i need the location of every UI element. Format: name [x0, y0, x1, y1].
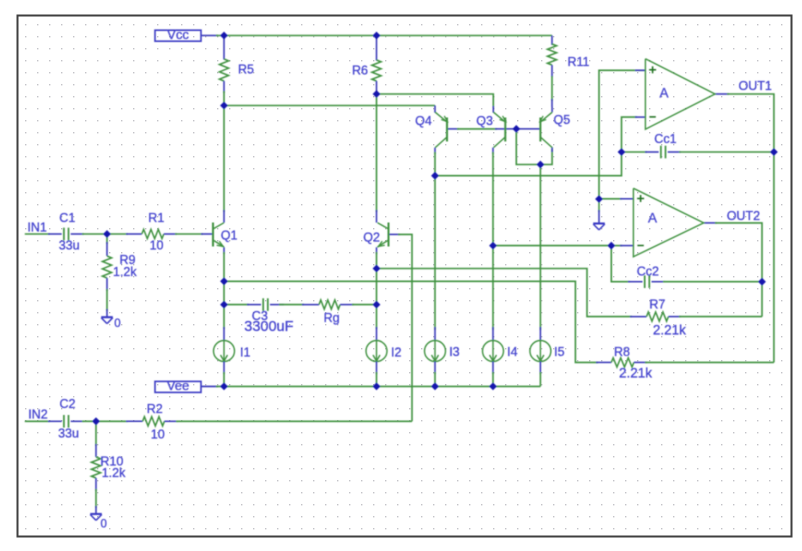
svg-text:A: A [648, 211, 657, 226]
svg-text:I2: I2 [391, 346, 401, 360]
svg-text:3300uF: 3300uF [244, 319, 293, 335]
svg-text:R8: R8 [614, 345, 630, 359]
svg-text:Rg: Rg [324, 311, 340, 325]
svg-text:IN1: IN1 [27, 221, 47, 235]
svg-text:I4: I4 [507, 345, 517, 359]
svg-text:2.21k: 2.21k [653, 322, 686, 337]
svg-text:R11: R11 [568, 55, 590, 69]
svg-text:10: 10 [150, 239, 164, 253]
svg-text:I3: I3 [449, 345, 459, 359]
svg-text:Q1: Q1 [221, 229, 238, 243]
svg-text:1.2k: 1.2k [113, 265, 137, 279]
svg-text:R2: R2 [147, 402, 163, 416]
svg-text:0: 0 [114, 318, 120, 330]
svg-text:A: A [660, 86, 669, 101]
svg-text:Q4: Q4 [415, 114, 432, 128]
svg-text:C1: C1 [59, 211, 75, 225]
svg-text:0: 0 [101, 518, 107, 530]
svg-text:Cc1: Cc1 [654, 132, 676, 146]
svg-text:Vcc: Vcc [167, 27, 189, 42]
svg-text:Q5: Q5 [554, 113, 571, 127]
svg-text:Vee: Vee [167, 378, 189, 393]
svg-text:C2: C2 [60, 397, 76, 411]
svg-text:I5: I5 [554, 345, 564, 359]
svg-text:33u: 33u [59, 239, 80, 253]
svg-text:I1: I1 [240, 346, 250, 360]
svg-text:R5: R5 [238, 62, 254, 76]
svg-text:OUT2: OUT2 [727, 209, 760, 223]
svg-text:Q3: Q3 [476, 114, 493, 128]
svg-text:10: 10 [151, 428, 165, 442]
svg-text:R7: R7 [649, 298, 665, 312]
svg-text:R6: R6 [352, 63, 368, 77]
svg-text:Cc2: Cc2 [637, 264, 659, 278]
svg-text:Q2: Q2 [363, 231, 380, 245]
svg-text:R1: R1 [148, 211, 164, 225]
svg-text:33u: 33u [58, 427, 79, 441]
svg-text:IN2: IN2 [28, 408, 48, 422]
svg-text:2.21k: 2.21k [619, 366, 652, 381]
svg-text:OUT1: OUT1 [739, 79, 772, 93]
svg-text:1.2k: 1.2k [102, 466, 126, 480]
